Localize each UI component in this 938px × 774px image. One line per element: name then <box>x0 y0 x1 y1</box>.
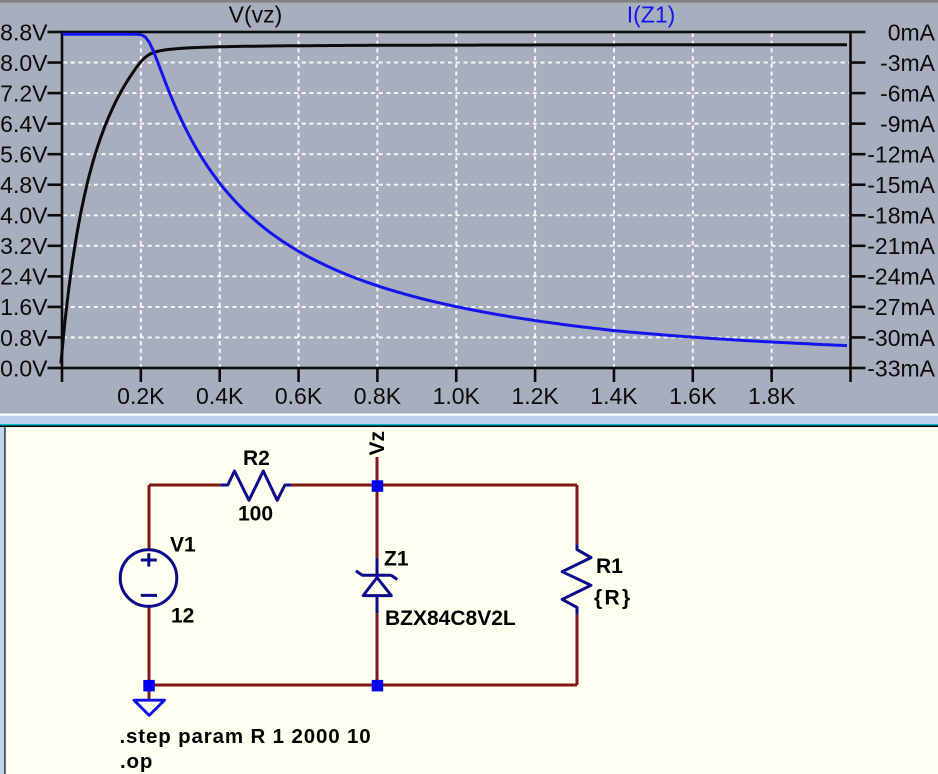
svg-text:R2: R2 <box>243 447 270 470</box>
svg-text:.step param R 1 2000 10: .step param R 1 2000 10 <box>120 725 372 748</box>
svg-text:-12mA: -12mA <box>867 141 935 167</box>
svg-text:7.2V: 7.2V <box>0 80 48 106</box>
svg-text:0.0V: 0.0V <box>0 355 48 381</box>
svg-text:6.4V: 6.4V <box>0 111 48 137</box>
svg-text:V1: V1 <box>170 534 196 557</box>
svg-text:Z1: Z1 <box>384 548 409 571</box>
svg-text:8.8V: 8.8V <box>0 19 48 45</box>
svg-text:0.6K: 0.6K <box>275 383 323 409</box>
svg-text:Vz: Vz <box>366 431 389 456</box>
svg-text:5.6V: 5.6V <box>0 141 48 167</box>
svg-text:-33mA: -33mA <box>867 355 935 381</box>
svg-text:-27mA: -27mA <box>867 294 935 320</box>
svg-text:-15mA: -15mA <box>867 172 935 198</box>
svg-text:12: 12 <box>171 604 194 627</box>
svg-text:1.0K: 1.0K <box>433 383 481 409</box>
svg-text:R1: R1 <box>596 555 623 578</box>
svg-text:-3mA: -3mA <box>880 50 936 76</box>
svg-text:-21mA: -21mA <box>867 233 935 259</box>
svg-text:8.0V: 8.0V <box>0 50 48 76</box>
svg-text:{R}: {R} <box>594 586 632 609</box>
svg-text:V(vz): V(vz) <box>229 2 283 28</box>
svg-text:-18mA: -18mA <box>867 203 935 229</box>
svg-text:2.4V: 2.4V <box>0 264 48 290</box>
svg-text:.op: .op <box>120 750 153 773</box>
svg-text:0mA: 0mA <box>888 19 936 45</box>
svg-text:I(Z1): I(Z1) <box>627 2 676 28</box>
svg-text:1.6K: 1.6K <box>669 383 717 409</box>
svg-text:1.4K: 1.4K <box>590 383 638 409</box>
svg-text:1.8K: 1.8K <box>748 383 796 409</box>
svg-text:0.8K: 0.8K <box>354 383 402 409</box>
svg-text:0.4K: 0.4K <box>196 383 244 409</box>
svg-text:-6mA: -6mA <box>880 80 936 106</box>
svg-text:4.8V: 4.8V <box>0 172 48 198</box>
svg-text:0.2K: 0.2K <box>117 383 165 409</box>
svg-text:1.6V: 1.6V <box>0 294 48 320</box>
svg-text:4.0V: 4.0V <box>0 203 48 229</box>
svg-text:3.2V: 3.2V <box>0 233 48 259</box>
svg-text:BZX84C8V2L: BZX84C8V2L <box>385 607 516 630</box>
svg-text:100: 100 <box>238 502 273 525</box>
svg-text:-9mA: -9mA <box>880 111 936 137</box>
svg-text:0.8V: 0.8V <box>0 325 48 351</box>
svg-text:-24mA: -24mA <box>867 264 935 290</box>
svg-text:1.2K: 1.2K <box>511 383 559 409</box>
svg-text:-30mA: -30mA <box>867 325 935 351</box>
